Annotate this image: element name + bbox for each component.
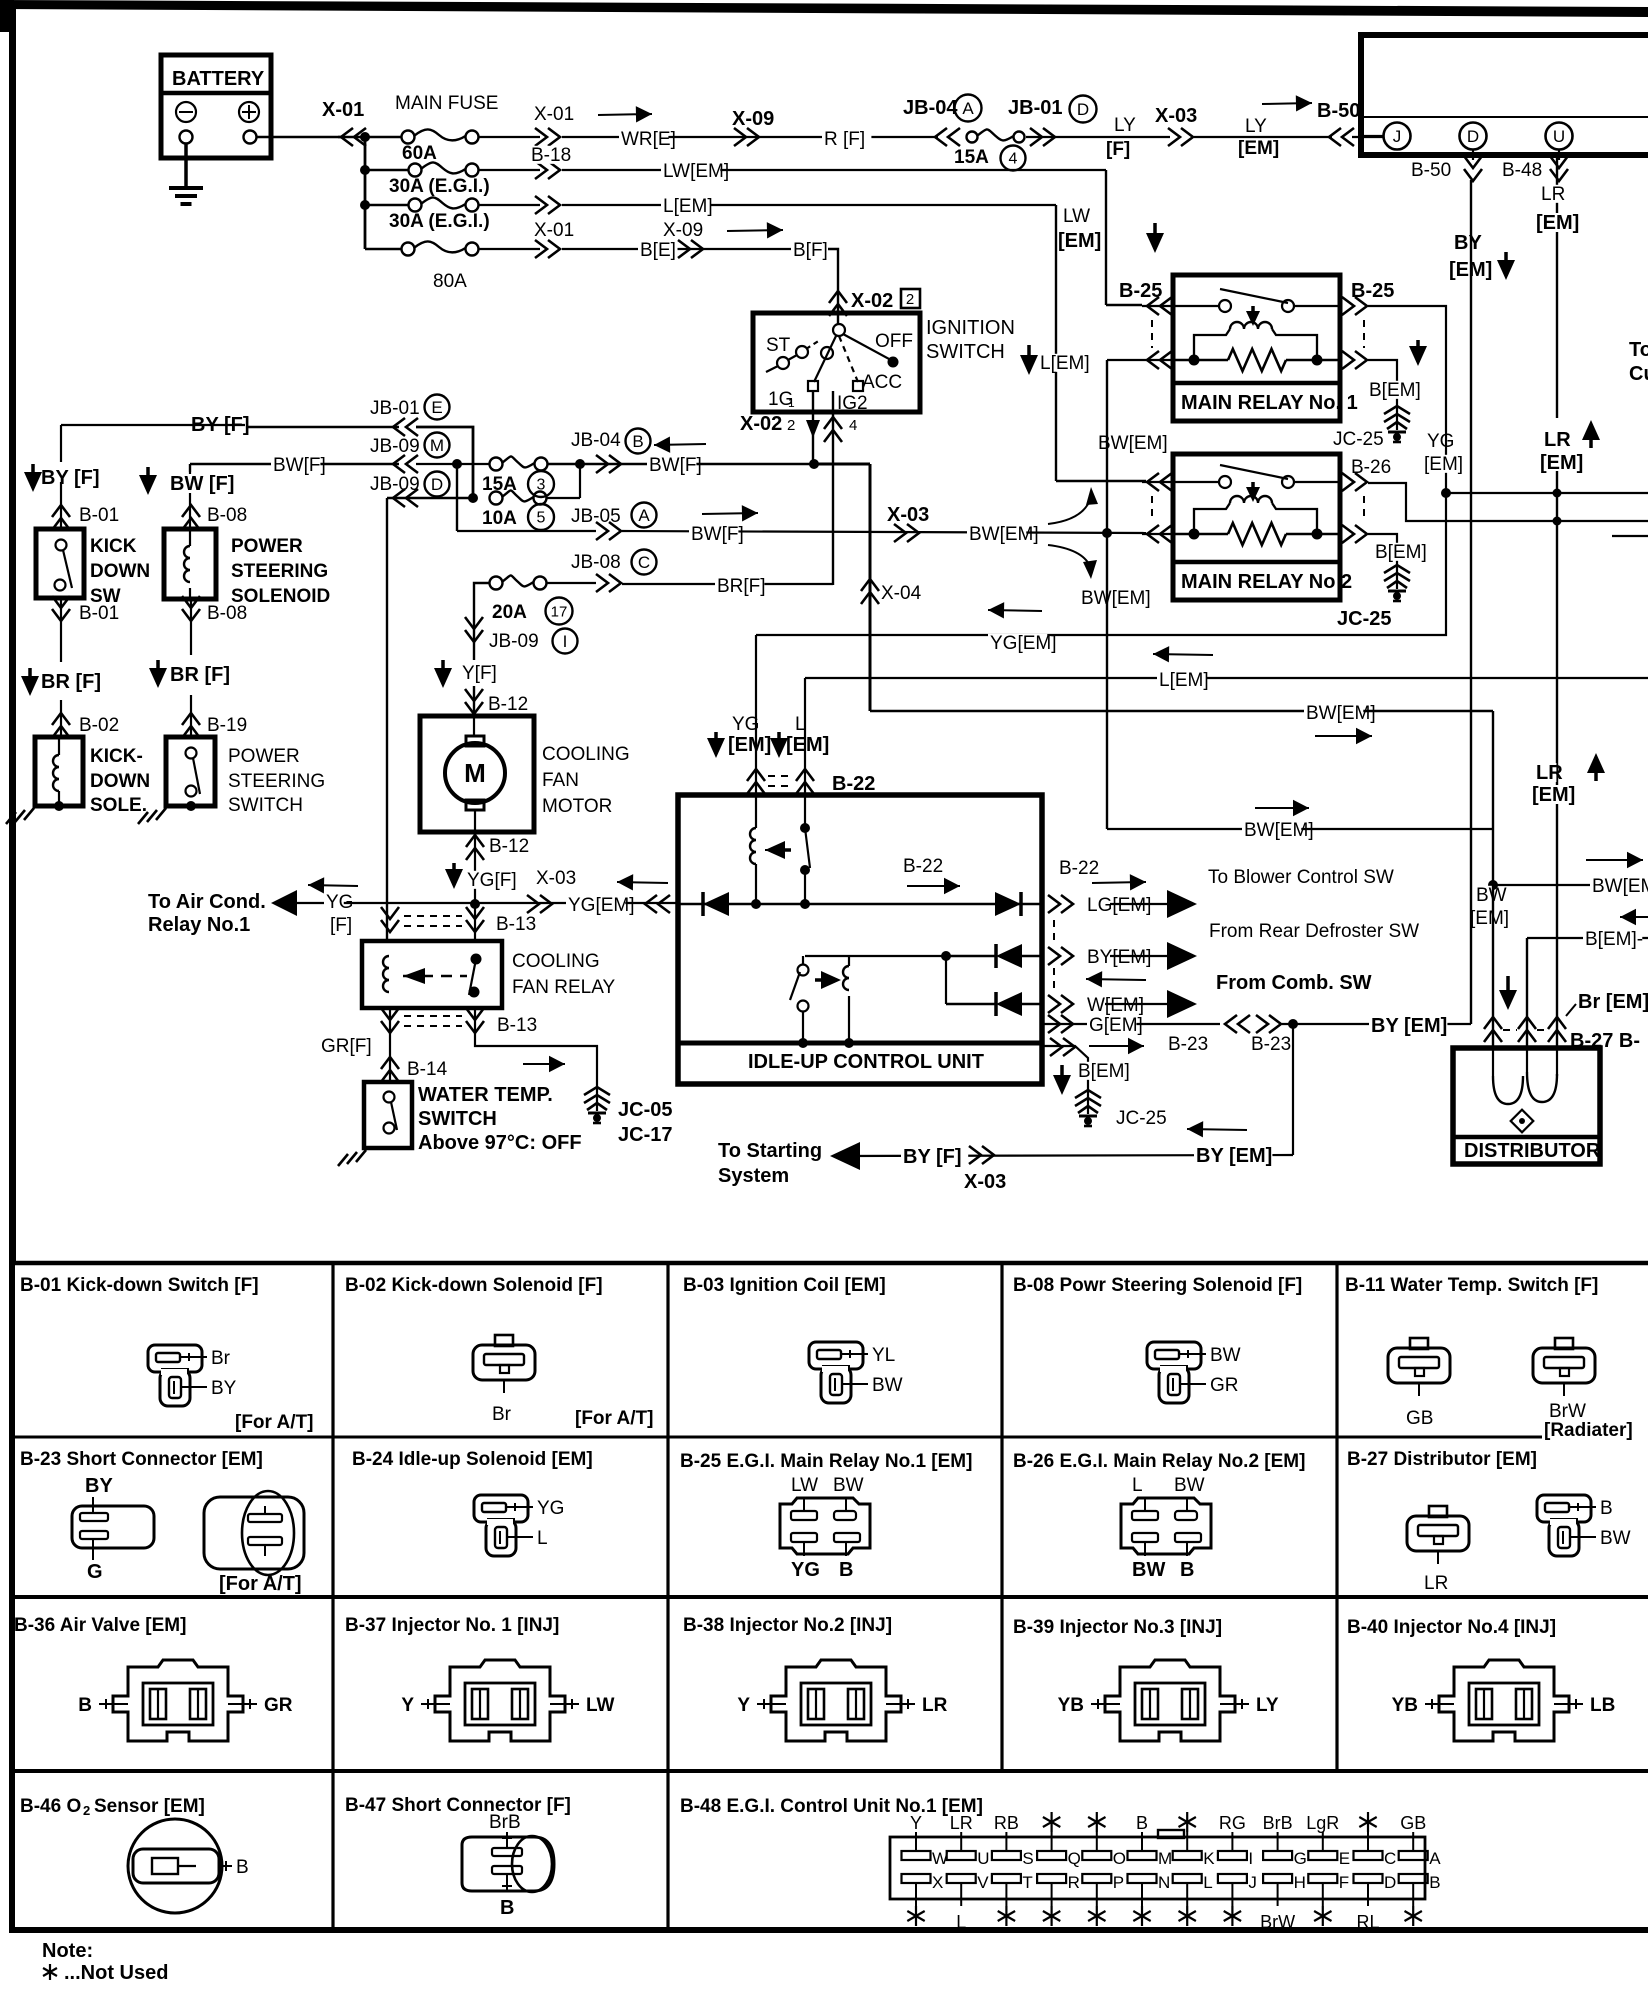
svg-text:RG: RG <box>1219 1813 1246 1833</box>
svg-text:30A (E.G.I.): 30A (E.G.I.) <box>389 176 490 197</box>
svg-text:R: R <box>1068 1873 1080 1892</box>
svg-text:YG[EM]: YG[EM] <box>568 895 635 916</box>
svg-text:RL: RL <box>1356 1912 1379 1932</box>
svg-text:Y: Y <box>401 1695 414 1716</box>
svg-text:G: G <box>1294 1849 1307 1868</box>
svg-text:W[EM]: W[EM] <box>1087 995 1144 1016</box>
svg-text:LR: LR <box>922 1695 948 1716</box>
svg-text:A: A <box>638 506 650 525</box>
svg-text:U: U <box>1553 127 1565 146</box>
svg-text:L[EM]: L[EM] <box>1040 353 1090 374</box>
svg-text:JC-17: JC-17 <box>618 1124 672 1146</box>
svg-text:D: D <box>1077 100 1089 119</box>
svg-text:BW: BW <box>1210 1345 1241 1366</box>
svg-text:BATTERY: BATTERY <box>172 68 265 90</box>
svg-text:Above 97°C: OFF: Above 97°C: OFF <box>418 1132 582 1154</box>
svg-text:H: H <box>1294 1873 1306 1892</box>
svg-text:STEERING: STEERING <box>228 771 325 792</box>
svg-text:B: B <box>632 432 643 451</box>
svg-text:YL: YL <box>872 1345 895 1366</box>
svg-text:BY: BY <box>1454 232 1482 254</box>
svg-text:SWITCH: SWITCH <box>228 795 303 816</box>
svg-text:B: B <box>1429 1873 1440 1892</box>
svg-text:IGNITION: IGNITION <box>926 317 1015 339</box>
svg-text:BR [F]: BR [F] <box>170 664 230 686</box>
svg-text:GR: GR <box>264 1695 293 1716</box>
svg-text:JB-09: JB-09 <box>370 436 420 457</box>
svg-text:COOLING: COOLING <box>542 744 630 765</box>
svg-text:YG: YG <box>537 1498 564 1519</box>
svg-text:L: L <box>537 1528 548 1549</box>
svg-text:B-39 Injector No.3 [INJ]: B-39 Injector No.3 [INJ] <box>1013 1617 1222 1638</box>
svg-text:[EM]: [EM] <box>1058 230 1101 252</box>
svg-text:3: 3 <box>537 477 546 494</box>
svg-text:DISTRIBUTOR: DISTRIBUTOR <box>1464 1140 1601 1162</box>
svg-text:B-13: B-13 <box>497 1015 537 1036</box>
svg-text:M: M <box>464 758 486 788</box>
svg-text:B-08: B-08 <box>207 603 247 624</box>
svg-text:JC-25: JC-25 <box>1337 608 1391 630</box>
svg-text:I: I <box>563 632 568 651</box>
svg-text:Note:: Note: <box>42 1940 93 1962</box>
svg-text:X-03: X-03 <box>964 1171 1006 1193</box>
svg-text:LY: LY <box>1114 115 1136 136</box>
svg-text:System: System <box>718 1165 789 1187</box>
svg-text:MAIN RELAY No 2: MAIN RELAY No 2 <box>1181 571 1352 593</box>
svg-text:BY [F]: BY [F] <box>903 1146 962 1168</box>
svg-text:X-02: X-02 <box>740 413 782 435</box>
svg-text:B[EM]-: B[EM]- <box>1585 929 1643 950</box>
svg-text:L: L <box>1132 1475 1143 1496</box>
svg-text:4: 4 <box>1009 151 1018 168</box>
svg-text:JB-08: JB-08 <box>571 552 621 573</box>
svg-text:15A: 15A <box>482 474 517 495</box>
svg-text:JC-25: JC-25 <box>1333 429 1384 450</box>
svg-text:[EM]: [EM] <box>786 734 829 756</box>
svg-text:JB-04: JB-04 <box>571 430 621 451</box>
svg-text:B-50: B-50 <box>1411 160 1451 181</box>
svg-text:BW[F]: BW[F] <box>691 524 744 545</box>
svg-text:17: 17 <box>551 603 568 620</box>
svg-text:B: B <box>500 1897 514 1919</box>
svg-text:80A: 80A <box>433 271 467 292</box>
svg-text:BW[F]: BW[F] <box>649 455 702 476</box>
svg-text:X-03: X-03 <box>1155 105 1197 127</box>
svg-text:GR: GR <box>1210 1375 1239 1396</box>
svg-text:B-36 Air Valve [EM]: B-36 Air Valve [EM] <box>14 1615 186 1636</box>
svg-text:[EM]: [EM] <box>1424 454 1463 475</box>
svg-text:Y: Y <box>737 1695 750 1716</box>
svg-text:U: U <box>977 1849 989 1868</box>
svg-text:POWER: POWER <box>228 746 300 767</box>
svg-text:To Air Cond.: To Air Cond. <box>148 891 266 913</box>
svg-text:A: A <box>962 99 974 118</box>
svg-text:[EM]: [EM] <box>1532 784 1575 806</box>
svg-text:IDLE-UP CONTROL UNIT: IDLE-UP CONTROL UNIT <box>748 1051 984 1073</box>
svg-text:Y[F]: Y[F] <box>462 663 497 684</box>
svg-text:X-03: X-03 <box>536 868 576 889</box>
svg-text:JC-05: JC-05 <box>618 1099 672 1121</box>
svg-text:B-18: B-18 <box>531 145 571 166</box>
svg-text:YG[EM]: YG[EM] <box>990 633 1057 654</box>
svg-text:BW: BW <box>1600 1528 1631 1549</box>
svg-text:BW[EM]: BW[EM] <box>1081 588 1151 609</box>
svg-text:GB: GB <box>1406 1408 1433 1429</box>
svg-text:MAIN RELAY No. 1: MAIN RELAY No. 1 <box>1181 392 1358 414</box>
svg-text:ACC: ACC <box>862 372 902 393</box>
svg-text:LR: LR <box>1424 1573 1448 1594</box>
svg-text:BW: BW <box>1174 1475 1205 1496</box>
svg-text:[EM]: [EM] <box>728 734 771 756</box>
svg-text:B-50: B-50 <box>1317 100 1360 122</box>
svg-text:C: C <box>638 553 650 572</box>
svg-text:To Blower Control SW: To Blower Control SW <box>1208 867 1394 888</box>
svg-text:L[EM]: L[EM] <box>1159 670 1209 691</box>
svg-text:LW: LW <box>586 1695 615 1716</box>
svg-text:BW [F]: BW [F] <box>170 473 234 495</box>
svg-text:[For A/T]: [For A/T] <box>219 1573 302 1595</box>
svg-text:COOLING: COOLING <box>512 951 600 972</box>
svg-text:B-12: B-12 <box>489 836 529 857</box>
svg-text:D: D <box>431 475 443 494</box>
svg-text:LW[EM]: LW[EM] <box>663 161 729 182</box>
svg-text:JC-25: JC-25 <box>1116 1108 1167 1129</box>
svg-text:I: I <box>1248 1849 1253 1868</box>
svg-text:B-26 E.G.I. Main Relay No.2 [E: B-26 E.G.I. Main Relay No.2 [EM] <box>1013 1451 1305 1472</box>
svg-text:X-01: X-01 <box>534 104 574 125</box>
svg-text:Relay No.1: Relay No.1 <box>148 914 250 936</box>
svg-text:4: 4 <box>849 417 857 434</box>
svg-text:FAN RELAY: FAN RELAY <box>512 977 615 998</box>
svg-text:X-03: X-03 <box>887 504 929 526</box>
svg-text:From Rear Defroster SW: From Rear Defroster SW <box>1209 921 1419 942</box>
svg-text:DOWN: DOWN <box>90 771 150 792</box>
svg-text:[F]: [F] <box>1106 139 1130 160</box>
svg-text:MAIN FUSE: MAIN FUSE <box>395 93 498 114</box>
svg-text:B[EM]: B[EM] <box>1375 542 1427 563</box>
svg-text:RB: RB <box>994 1813 1019 1833</box>
svg-text:WR[E]: WR[E] <box>621 129 676 150</box>
svg-text:B: B <box>78 1695 92 1716</box>
svg-text:JB-01: JB-01 <box>1008 97 1062 119</box>
svg-text:BW[EM]: BW[EM] <box>1098 433 1168 454</box>
svg-text:JB-04: JB-04 <box>903 97 958 119</box>
svg-text:M: M <box>1158 1849 1172 1868</box>
svg-text:E: E <box>1339 1849 1350 1868</box>
svg-text:A: A <box>1429 1849 1441 1868</box>
svg-text:BW: BW <box>872 1375 903 1396</box>
svg-text:BW[F]: BW[F] <box>273 455 326 476</box>
svg-text:B-22: B-22 <box>1059 858 1099 879</box>
svg-text:BW[EM]: BW[EM] <box>1244 820 1314 841</box>
svg-text:BY [EM]: BY [EM] <box>1371 1015 1447 1037</box>
svg-text:V: V <box>977 1873 989 1892</box>
svg-text:[For A/T]: [For A/T] <box>575 1408 653 1429</box>
svg-text:B-19: B-19 <box>207 715 247 736</box>
svg-text:BY: BY <box>211 1378 237 1399</box>
svg-text:YG: YG <box>791 1559 820 1581</box>
svg-text:B-37 Injector No. 1 [INJ]: B-37 Injector No. 1 [INJ] <box>345 1615 559 1636</box>
svg-text:Y: Y <box>910 1813 922 1833</box>
svg-text:B-22: B-22 <box>903 856 943 877</box>
svg-text:WATER TEMP.: WATER TEMP. <box>418 1084 553 1106</box>
svg-text:BY [F]: BY [F] <box>41 467 100 489</box>
svg-text:DOWN: DOWN <box>90 561 150 582</box>
svg-text:B-40 Injector No.4 [INJ]: B-40 Injector No.4 [INJ] <box>1347 1617 1556 1638</box>
svg-text:B-12: B-12 <box>488 694 528 715</box>
svg-text:60A: 60A <box>402 143 437 164</box>
svg-text:MOTOR: MOTOR <box>542 796 612 817</box>
svg-text:LY: LY <box>1245 116 1267 137</box>
svg-text:BY [EM]: BY [EM] <box>1196 1145 1272 1167</box>
svg-text:B-08 Powr Steering Solenoid [F: B-08 Powr Steering Solenoid [F] <box>1013 1275 1302 1296</box>
svg-text:2: 2 <box>906 291 914 308</box>
svg-text:KICK-: KICK- <box>90 746 143 767</box>
svg-text:2: 2 <box>787 417 795 434</box>
svg-text:N: N <box>1158 1873 1170 1892</box>
svg-text:BW[EM]: BW[EM] <box>1592 876 1648 897</box>
svg-text:SWITCH: SWITCH <box>418 1108 497 1130</box>
svg-text:Sensor [EM]: Sensor [EM] <box>94 1796 205 1817</box>
svg-text:[For A/T]: [For A/T] <box>235 1412 313 1433</box>
svg-text:BW[EM]: BW[EM] <box>969 524 1039 545</box>
svg-text:[EM]: [EM] <box>1536 212 1579 234</box>
svg-text:Cu: Cu <box>1629 363 1648 385</box>
svg-text:[F]: [F] <box>330 915 352 936</box>
svg-text:B-48 E.G.I. Control Unit No.1: B-48 E.G.I. Control Unit No.1 [EM] <box>680 1796 983 1817</box>
svg-text:B[F]: B[F] <box>793 240 828 261</box>
svg-text:5: 5 <box>537 510 546 527</box>
svg-text:X: X <box>932 1873 943 1892</box>
svg-text:L: L <box>1203 1873 1212 1892</box>
svg-text:G: G <box>87 1561 103 1583</box>
svg-text:E: E <box>431 398 442 417</box>
svg-text:D: D <box>1467 127 1479 146</box>
svg-text:B-24 Idle-up Solenoid [EM]: B-24 Idle-up Solenoid [EM] <box>352 1449 593 1470</box>
svg-text:B-01 Kick-down Switch [F]: B-01 Kick-down Switch [F] <box>20 1275 259 1296</box>
svg-text:From Comb. SW: From Comb. SW <box>1216 972 1372 994</box>
svg-text:X-09: X-09 <box>732 108 774 130</box>
svg-text:B: B <box>839 1559 853 1581</box>
svg-text:B-14: B-14 <box>407 1059 448 1080</box>
svg-text:To: To <box>1629 339 1648 361</box>
svg-text:BR [F]: BR [F] <box>41 671 101 693</box>
svg-text:BrW: BrW <box>1260 1912 1295 1932</box>
svg-text:OFF: OFF <box>875 331 913 352</box>
svg-text:YG[F]: YG[F] <box>467 870 517 891</box>
svg-text:B: B <box>1136 1813 1148 1833</box>
svg-text:G[EM]: G[EM] <box>1089 1015 1143 1036</box>
svg-text:1: 1 <box>788 396 795 410</box>
svg-text:[Radiater]: [Radiater] <box>1544 1420 1633 1441</box>
svg-text:15A: 15A <box>954 147 989 168</box>
svg-text:L: L <box>956 1912 966 1932</box>
svg-text:LG[EM]: LG[EM] <box>1087 895 1151 916</box>
svg-text:Q: Q <box>1068 1849 1081 1868</box>
svg-text:GR[F]: GR[F] <box>321 1036 372 1057</box>
svg-text:[EM]: [EM] <box>1470 908 1509 929</box>
svg-text:LR: LR <box>1544 429 1571 451</box>
svg-text:To Starting: To Starting <box>718 1140 822 1162</box>
svg-text:[EM]: [EM] <box>1238 138 1279 159</box>
svg-text:BW[EM]: BW[EM] <box>1306 703 1376 724</box>
svg-text:YB: YB <box>1058 1695 1084 1716</box>
svg-text:B[EM]: B[EM] <box>1369 380 1421 401</box>
svg-text:BrW: BrW <box>1549 1401 1586 1422</box>
svg-text:BW: BW <box>1132 1559 1165 1581</box>
svg-text:YG: YG <box>326 892 353 913</box>
svg-text:B-23: B-23 <box>1251 1034 1291 1055</box>
svg-text:B[E]: B[E] <box>640 240 676 261</box>
svg-text:D: D <box>1384 1873 1396 1892</box>
svg-text:Br: Br <box>211 1348 231 1369</box>
svg-text:O: O <box>1113 1849 1126 1868</box>
svg-text:FAN: FAN <box>542 770 579 791</box>
svg-text:GB: GB <box>1400 1813 1426 1833</box>
svg-text:SOLE.: SOLE. <box>90 795 147 816</box>
svg-text:LR: LR <box>1541 184 1565 205</box>
svg-text:B-01: B-01 <box>79 505 119 526</box>
svg-text:B-11 Water Temp. Switch [F]: B-11 Water Temp. Switch [F] <box>1345 1275 1598 1296</box>
svg-text:B[EM]: B[EM] <box>1078 1061 1130 1082</box>
svg-text:B-25 E.G.I. Main Relay No.1 [E: B-25 E.G.I. Main Relay No.1 [EM] <box>680 1451 972 1472</box>
svg-text:BrB: BrB <box>1263 1813 1293 1833</box>
svg-text:IG2: IG2 <box>837 393 868 414</box>
svg-text:LW: LW <box>1063 206 1090 227</box>
svg-text:POWER: POWER <box>231 536 303 557</box>
svg-text:R [F]: R [F] <box>824 129 865 150</box>
svg-text:B-01: B-01 <box>79 603 119 624</box>
svg-text:BrB: BrB <box>489 1812 521 1833</box>
svg-text:LR: LR <box>1536 762 1563 784</box>
svg-text:B: B <box>1180 1559 1194 1581</box>
svg-text:X-01: X-01 <box>322 99 364 121</box>
svg-text:X-09: X-09 <box>663 220 703 241</box>
svg-text:BW: BW <box>833 1475 864 1496</box>
svg-text:P: P <box>1113 1873 1124 1892</box>
svg-text:F: F <box>1339 1873 1349 1892</box>
svg-text:JB-01: JB-01 <box>370 398 420 419</box>
svg-text:J: J <box>1248 1873 1257 1892</box>
svg-text:L[EM]: L[EM] <box>663 196 713 217</box>
svg-text:B-02 Kick-down Solenoid [F]: B-02 Kick-down Solenoid [F] <box>345 1275 603 1296</box>
svg-text:B-46 O: B-46 O <box>20 1796 81 1817</box>
svg-text:B-13: B-13 <box>496 914 536 935</box>
svg-text:20A: 20A <box>492 602 527 623</box>
svg-text:B-08: B-08 <box>207 505 247 526</box>
svg-text:LY: LY <box>1256 1695 1279 1716</box>
svg-text:2: 2 <box>83 1803 90 1818</box>
svg-text:BR[F]: BR[F] <box>717 576 766 597</box>
svg-text:T: T <box>1022 1873 1032 1892</box>
svg-text:BY: BY <box>85 1475 113 1497</box>
svg-text:B-48: B-48 <box>1502 160 1542 181</box>
svg-text:B-47 Short Connector [F]: B-47 Short Connector [F] <box>345 1795 571 1816</box>
svg-text:30A (E.G.I.): 30A (E.G.I.) <box>389 211 490 232</box>
svg-text:ST: ST <box>766 335 791 356</box>
svg-text:B: B <box>1600 1498 1613 1519</box>
svg-text:LR: LR <box>950 1813 973 1833</box>
svg-text:10A: 10A <box>482 508 517 529</box>
svg-text:YB: YB <box>1392 1695 1418 1716</box>
svg-text:JB-09: JB-09 <box>489 631 539 652</box>
svg-text:M: M <box>430 436 444 455</box>
svg-text:B-22: B-22 <box>832 773 875 795</box>
svg-text:SWITCH: SWITCH <box>926 341 1005 363</box>
svg-text:B-03 Ignition Coil [EM]: B-03 Ignition Coil [EM] <box>683 1275 886 1296</box>
svg-text:BW: BW <box>1476 885 1507 906</box>
svg-text:[EM]: [EM] <box>1540 452 1583 474</box>
svg-text:Br [EM]: Br [EM] <box>1578 991 1648 1013</box>
svg-text:LB: LB <box>1590 1695 1615 1716</box>
svg-text:B-27 Distributor [EM]: B-27 Distributor [EM] <box>1347 1449 1537 1470</box>
svg-text:LgR: LgR <box>1306 1813 1339 1833</box>
svg-text:S: S <box>1022 1849 1033 1868</box>
svg-text:LW: LW <box>791 1475 818 1496</box>
svg-text:STEERING: STEERING <box>231 561 328 582</box>
svg-text:B-02: B-02 <box>79 715 119 736</box>
svg-text:BY[EM]: BY[EM] <box>1087 947 1151 968</box>
svg-text:X-02: X-02 <box>851 290 893 312</box>
svg-text:Br: Br <box>492 1404 512 1425</box>
svg-text:X-04: X-04 <box>881 583 922 604</box>
svg-text:YG: YG <box>1427 431 1454 452</box>
svg-text:C: C <box>1384 1849 1396 1868</box>
svg-text:K: K <box>1203 1849 1215 1868</box>
svg-text:X-01: X-01 <box>534 220 574 241</box>
svg-text:B-23 Short Connector [EM]: B-23 Short Connector [EM] <box>20 1449 263 1470</box>
svg-text:B-38 Injector No.2 [INJ]: B-38 Injector No.2 [INJ] <box>683 1615 892 1636</box>
svg-text:...Not Used: ...Not Used <box>64 1962 168 1984</box>
svg-text:KICK: KICK <box>90 536 137 557</box>
svg-text:J: J <box>1393 127 1402 146</box>
svg-text:B: B <box>236 1857 249 1878</box>
svg-text:B-23: B-23 <box>1168 1034 1208 1055</box>
